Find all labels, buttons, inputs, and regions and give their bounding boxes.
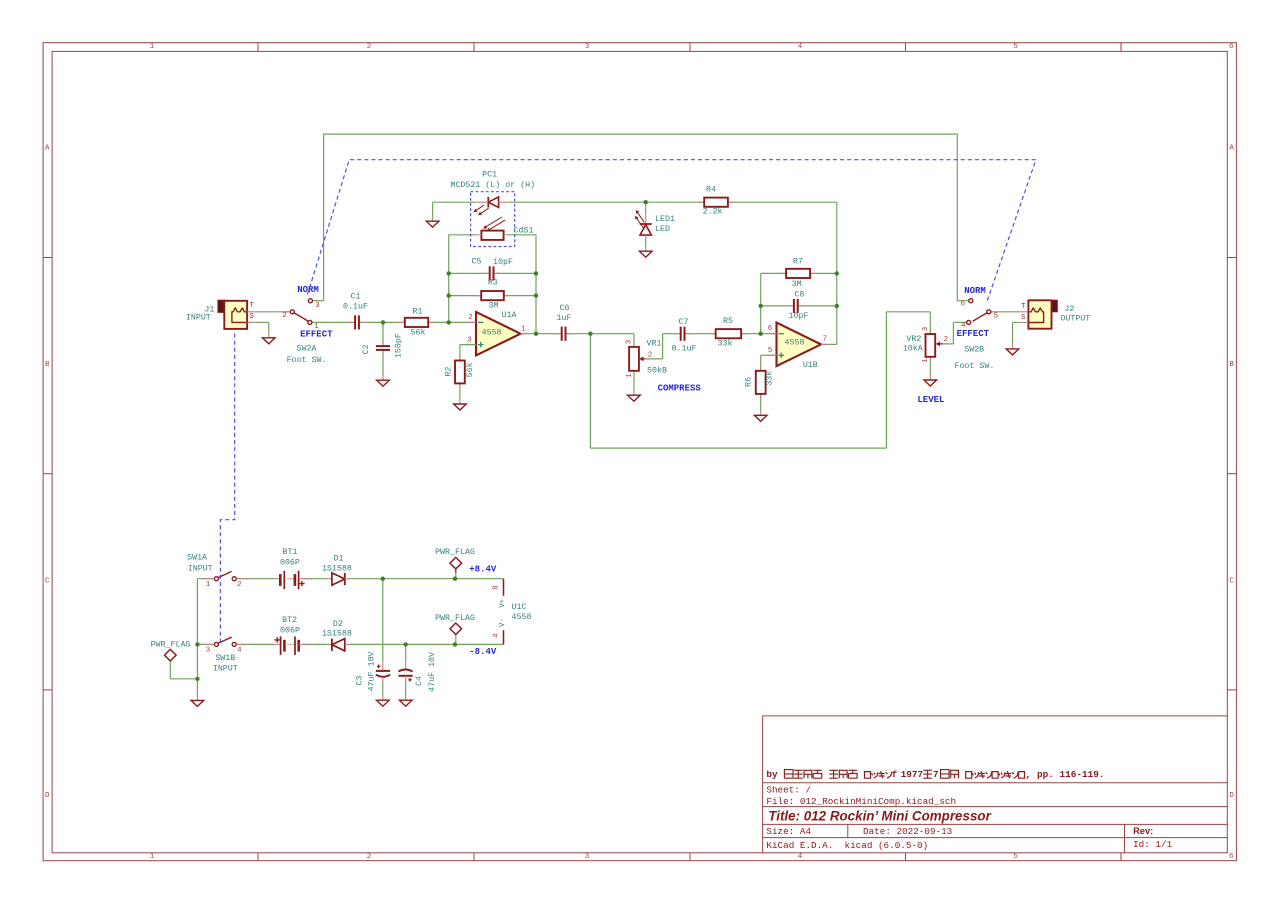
svg-text:D2: D2 [333,620,343,629]
SW2A NORM pin 3 circle [308,299,312,303]
junction (448.7,273.4) [447,271,451,275]
wire: CdS1 right [509,234,536,236]
svg-text:Size: A4: Size: A4 [766,826,811,837]
wire: U1B feedback left vertical [760,273,762,333]
junction (455,644.4) [453,642,457,646]
wire: D2 to U1C V- rail [350,643,504,645]
wire: D1 to U1C V+ rail [350,578,504,580]
wire: VR2 wiper out [941,343,953,345]
svg-text:R7: R7 [793,258,803,267]
svg-text:6: 6 [1229,853,1234,861]
resistor R2 body [455,355,465,390]
svg-text:R3: R3 [488,279,498,288]
svg-text:by: by [766,769,778,780]
switch SW2A foot switch pole A [294,313,308,321]
svg-text:A: A [1229,145,1234,153]
LED LED1 [640,214,652,241]
wire: SW2B NORM stub [957,300,968,302]
battery BT2 006P [274,636,312,655]
svg-text:C7: C7 [679,318,689,327]
svg-text:4558: 4558 [785,339,805,348]
svg-text:C3: C3 [355,676,364,686]
wire: PC1 left down to ground [432,202,434,216]
svg-text:SW2A: SW2A [297,345,317,354]
ground at C3 [377,696,390,707]
svg-text:7: 7 [823,335,827,343]
wire: bypass net right vertical [956,134,958,301]
wire: J1 sleeve to ground corner [256,321,269,323]
svg-text:File: 012_RockinMiniComp.kicad: File: 012_RockinMiniComp.kicad_sch [766,796,956,807]
wire: pin5 down to R6 [760,355,762,371]
svg-text:3: 3 [467,336,471,344]
svg-text:C1: C1 [351,293,361,302]
connector J1 INPUT jack [218,300,257,329]
capacitor C4 47uF polarized [398,662,412,679]
svg-text:1: 1 [626,373,634,378]
wire: down to ground [196,679,198,696]
wire: C5 left [449,272,488,274]
svg-text:4558: 4558 [482,328,502,337]
svg-text:V-: V- [499,618,507,627]
ground at R2 [454,399,467,410]
svg-text:PWR_FLAG: PWR_FLAG [151,641,191,650]
wire: bypass net left vertical [323,134,325,301]
svg-text:C8: C8 [794,291,804,300]
frame ticks [257,43,259,52]
svg-text:C4: C4 [415,676,424,686]
wire: CdS1 left [449,234,477,236]
wire: PWR_FLAG - stem [455,634,457,644]
wire: J1 tip to SW2A common [256,311,290,313]
svg-text:8: 8 [493,585,501,589]
SW2B common pin 5 circle [987,310,991,314]
svg-text:56k: 56k [465,362,475,377]
svg-text:Id: 1/1: Id: 1/1 [1133,839,1172,850]
svg-text:10pF: 10pF [789,312,809,321]
svg-text:3: 3 [585,853,590,861]
svg-text:KiCad E.D.A. kicad (6.0.5-0): KiCad E.D.A. kicad (6.0.5-0) [766,840,928,851]
ground at R6 [754,411,767,422]
wire: -rail down to C4 [405,644,407,662]
wire: R6 to ground [760,394,762,411]
optocoupler PC1 MCD521 [471,192,515,247]
wire: to C7 [663,333,680,335]
svg-text:47uF 10V: 47uF 10V [428,652,437,692]
wire: feedback right vertical [535,235,537,334]
capacitor C7 plates [673,327,691,341]
resistor R5 [710,329,747,338]
svg-text:R1: R1 [413,308,423,317]
wire: SW2B common to J2 tip [991,311,1019,313]
battery BT1 006P [274,571,312,590]
svg-text:EFFECT: EFFECT [957,329,990,339]
capacitor C1 plates [348,315,366,329]
ground at VR2 [924,375,937,386]
ground at VR1 [628,391,641,402]
svg-text:B: B [1229,361,1234,369]
wire: bypass net top horizontal [324,133,958,135]
capacitor C5 plates [482,266,500,280]
svg-text:R6: R6 [745,377,754,387]
svg-text:1: 1 [521,325,526,333]
wire: SW1B pin4 to BT2 [236,643,274,645]
svg-text:0.1uF: 0.1uF [343,303,368,312]
svg-text:2: 2 [468,314,472,322]
svg-text:R4: R4 [706,186,716,195]
svg-text:-8.4V: -8.4V [469,647,497,657]
diode D1 1S1588 [327,573,350,585]
wire: C6 to junction [566,333,590,335]
ground at SW1 common [191,696,204,707]
connector J2 OUTPUT jack [1019,300,1058,328]
wire: PWR_FLAG + stem [455,573,457,579]
svg-text:SW1A: SW1A [187,554,207,563]
svg-text:f: f [892,769,898,780]
dashed linkage SW2A-SW2B (DPDT mechanical link) [308,160,1036,303]
wire: SW2A EFFECT to C1 [312,321,354,323]
svg-text:6: 6 [961,301,965,309]
svg-text:2: 2 [367,853,372,861]
svg-text:3M: 3M [792,280,802,289]
PC1 CdS photoresistor [476,231,509,240]
svg-text:0.1uF: 0.1uF [672,344,697,353]
svg-text:006P: 006P [280,559,300,568]
svg-text:Rev:: Rev: [1133,826,1153,836]
capacitor C3 47uF polarized [376,662,390,681]
svg-text:4: 4 [493,633,501,638]
svg-text:C: C [1229,578,1234,586]
svg-text:1uF: 1uF [557,314,572,323]
svg-text:Sheet: /: Sheet: / [766,785,811,796]
wire: BT1 to D1 [303,578,327,580]
svg-text:5: 5 [994,313,998,321]
svg-text:C6: C6 [560,304,570,313]
wire: R7 right [810,272,837,274]
svg-text:33k: 33k [764,371,774,386]
svg-text:D: D [1229,792,1234,800]
svg-text:2: 2 [282,312,286,320]
op-amp U1A [466,312,528,356]
svg-text:EFFECT: EFFECT [300,330,333,340]
svg-text:5: 5 [1013,43,1018,51]
SW2A common pin 2 circle [290,310,294,314]
junction (760.7,333.7) [759,332,763,336]
junction (836.8,273.4) [835,271,839,275]
resistor R6 body [756,365,766,400]
svg-text:pp. 116-119.: pp. 116-119. [1037,769,1105,780]
wire: pin3 horizontal [460,344,476,346]
svg-text:4: 4 [798,43,803,51]
wire: SW1A pin2 to BT1 [236,578,274,580]
wire: J2 sleeve stub [1013,322,1019,324]
svg-text:Date: 2022-09-13: Date: 2022-09-13 [863,826,952,837]
svg-text:2.2k: 2.2k [703,207,723,217]
svg-text:OUTPUT: OUTPUT [1060,315,1090,324]
resistor R4 [698,198,734,207]
junction (448.7,322.4) [447,320,451,324]
wire: R7 left [761,272,786,274]
svg-text:Foot SW.: Foot SW. [954,362,994,371]
svg-text:INPUT: INPUT [188,565,213,574]
wire: PWR_FLAG gnd stem [169,661,171,679]
svg-text:33k: 33k [718,338,733,348]
svg-text:47uF 10V: 47uF 10V [368,652,377,692]
potentiometer VR1 [629,347,645,371]
svg-text:VR2: VR2 [906,335,921,344]
power flag PWR_FLAG (ground) [165,649,177,661]
switch SW2B foot switch pole B [973,313,987,321]
wire: down to VR2 [929,312,931,334]
svg-text:2: 2 [237,581,241,589]
svg-text:4: 4 [798,853,803,861]
svg-text:LED1: LED1 [655,215,675,224]
SW1A pin stubs [203,578,215,580]
wire: PC1 LED to R4 [508,201,704,203]
junction (536,333.7) [534,332,538,336]
diode D2 1S1588 [327,639,350,651]
dashed linkage J1-SW1 (jack power switch link) [220,334,234,643]
svg-text:1: 1 [150,853,155,861]
wire: junction down to C2 [382,322,384,344]
wire: U1B pin5 stub [761,354,777,356]
svg-text:V+: V+ [499,598,507,607]
junction (382.8,578.7) [381,577,385,581]
svg-text:LEVEL: LEVEL [917,395,944,405]
junction (197.4,678.8) [195,677,199,681]
wire: long feedback up [885,312,887,448]
wire: +rail down to C3 [382,579,384,663]
junction (590.4,333.7) [588,332,592,336]
wire: wiper up [662,334,664,359]
SW2B NORM pin 6 circle [969,299,973,303]
svg-text:NORM: NORM [964,286,986,296]
junction (405.7,644.4) [404,642,408,646]
svg-text:J2: J2 [1064,305,1074,314]
ground at C2 [377,376,390,387]
svg-text:1S1588: 1S1588 [322,630,352,639]
svg-text:1: 1 [150,43,155,51]
wire: R3 left [449,295,482,297]
svg-text:3: 3 [625,340,633,344]
resistor R1 [399,318,434,327]
svg-text:6: 6 [768,325,772,333]
title block outline [763,716,1228,853]
svg-text:A: A [45,145,50,153]
junction (455,578.7) [453,577,457,581]
junction (836.8,305.9) [835,304,839,308]
power flag PWR_FLAG (-8.4V) [450,623,462,635]
svg-text:MCD521 (L) or (H): MCD521 (L) or (H) [450,180,535,190]
junction (760.7,305.9) [759,304,763,308]
svg-text:+8.4V: +8.4V [469,565,497,575]
wire: U1B pin7 out [821,343,837,345]
SW2B EFFECT pin 4 circle [967,320,971,324]
SW1A pin 2 circle [232,577,236,581]
svg-text:D1: D1 [334,555,344,564]
svg-text:VR1: VR1 [647,340,662,349]
wire: VR1 to ground [633,371,635,391]
svg-text:CdS1: CdS1 [514,226,534,236]
wire: PC1 LED left [433,201,477,203]
svg-text:,: , [1025,770,1031,781]
svg-text:5: 5 [1013,853,1018,861]
SW1B pin stubs [203,643,215,645]
svg-text:SW2B: SW2B [964,346,984,355]
svg-text:C: C [45,578,50,586]
svg-text:3: 3 [922,327,930,331]
switch SW1A power switch pole A [218,571,231,577]
svg-text:3M: 3M [489,302,499,311]
svg-text:3: 3 [206,647,210,655]
svg-text:COMPRESS: COMPRESS [658,383,702,393]
wire: C2 to ground [382,351,384,375]
svg-text:PWR_FLAG: PWR_FLAG [435,548,475,557]
svg-text:SW1B: SW1B [215,654,235,663]
SW1B pin 4 circle [232,642,236,646]
wire: C3 to ground [382,681,384,696]
wire: LED1 bottom stem [645,240,647,247]
svg-text:56k: 56k [411,328,426,338]
svg-text:R5: R5 [723,317,733,326]
svg-text:INPUT: INPUT [213,664,238,673]
svg-text:3: 3 [585,43,590,51]
svg-text:1S1588: 1S1588 [322,565,352,574]
svg-text:INPUT: INPUT [186,314,211,323]
wire: C4 to ground [405,680,407,696]
svg-text:2: 2 [944,336,948,344]
wire: junction to VR1 top corner [590,333,634,335]
svg-text:6: 6 [1229,43,1234,51]
junction (448.7,295.6) [447,293,451,297]
svg-text:10pF: 10pF [493,258,513,267]
svg-text:Title: 012 Rockin’ Mini Compre: Title: 012 Rockin’ Mini Compressor [768,809,991,824]
wire: J1 sleeve down to ground [268,322,270,333]
svg-text:Foot SW.: Foot SW. [287,356,327,365]
wire: BT2 to D2 [303,643,327,645]
svg-text:5: 5 [768,347,772,355]
wire: long feedback down [589,334,591,448]
capacitor C8 plates [787,299,805,313]
svg-text:BT2: BT2 [282,616,297,625]
junction (197.4,644.4) [195,642,199,646]
svg-text:7: 7 [933,769,939,780]
ground at J1 sleeve [263,333,276,344]
wire: J2 sleeve to ground [1012,323,1014,345]
wire: R5 to U1B pin6 [741,333,776,335]
wire: to SW2B EFFECT [953,321,966,323]
svg-text:006P: 006P [280,627,300,636]
svg-text:LED: LED [655,225,670,234]
svg-text:U1C: U1C [512,603,527,612]
resistor R7 [780,269,816,278]
wire: output right vertical to R4 [836,202,838,344]
ground at J2 sleeve [1006,344,1019,355]
wire: R4 right to corner [728,201,837,203]
svg-text:R2: R2 [444,367,453,377]
junction (645.7,202.2) [644,200,648,204]
svg-text:D: D [45,792,50,800]
svg-text:50kB: 50kB [647,366,667,376]
svg-text:C5: C5 [472,258,482,267]
svg-text:S: S [1021,314,1025,322]
wire: pin3 down to R2 [459,345,461,361]
wire: R2 to ground [459,383,461,399]
SW2A EFFECT pin 1 circle [308,320,312,324]
junction (536,273.4) [534,271,538,275]
wire: VR2 to ground [929,357,931,376]
svg-text:2: 2 [648,351,652,359]
svg-text:U1B: U1B [803,361,818,370]
power flag PWR_FLAG (+8.4V) [450,557,462,569]
wire: SW2A NORM stub [313,300,324,302]
switch SW1B power switch pole B [218,637,231,643]
wire: wiper up [952,322,954,344]
wire: feedback left vertical [448,235,450,323]
wire: down to VR1 [633,334,635,347]
ground at LED1 [639,247,652,258]
ground at C4 [399,696,412,707]
svg-text:1: 1 [206,581,211,589]
op-amp U1C power pins [503,579,505,645]
wire: SW1A pin1 stub [197,578,214,580]
wire: VR1 wiper out [645,358,663,360]
svg-text:T: T [249,302,253,310]
svg-text:3: 3 [315,302,319,310]
svg-text:S: S [249,313,253,321]
wire: PWR_FLAG gnd horizontal [170,678,197,680]
capacitor C6 plates [554,327,572,341]
svg-text:150pF: 150pF [394,333,403,358]
wire: long feedback bottom [590,447,886,449]
PC1 LED element [476,197,508,208]
wire: U1A output to C6 [521,333,560,335]
svg-text:T: T [1021,303,1025,311]
svg-text:C2: C2 [362,344,371,354]
SW1A pin 1 circle [214,577,218,581]
wire: R3 right [504,295,536,297]
svg-text:4: 4 [237,647,242,655]
wire: C5 right [496,272,537,274]
svg-text:U1A: U1A [502,311,517,320]
wire: LED1 top stem [645,202,647,213]
ground at PC1 anode [426,217,439,228]
SW1B pin 3 circle [214,642,218,646]
svg-text:1977: 1977 [901,769,924,780]
svg-text:PWR_FLAG: PWR_FLAG [435,614,475,623]
wire: C1 to R1 [360,321,404,323]
wire: C7 to R5 [686,333,716,335]
wire: left power vertical [196,579,198,679]
wire: C8 left [761,305,793,307]
capacitor C2 plates [376,340,390,357]
svg-text:B: B [45,361,50,369]
svg-text:2: 2 [367,43,372,51]
svg-text:4558: 4558 [512,613,532,622]
wire: C8 right [799,305,837,307]
op-amp U1B [767,323,829,367]
junction (383,322.4) [381,320,385,324]
resistor R3 [475,291,510,300]
svg-text:1: 1 [922,358,930,363]
svg-text:PC1: PC1 [482,170,497,179]
potentiometer VR2 [926,334,944,357]
wire: to VR2 corner [886,311,930,313]
svg-text:BT1: BT1 [283,548,298,557]
wire: SW1B pin3 stub [197,643,214,645]
wire: R1 to U1A pin2 [428,321,476,323]
svg-text:10kA: 10kA [903,344,923,354]
SW2A pin stubs [283,311,290,313]
